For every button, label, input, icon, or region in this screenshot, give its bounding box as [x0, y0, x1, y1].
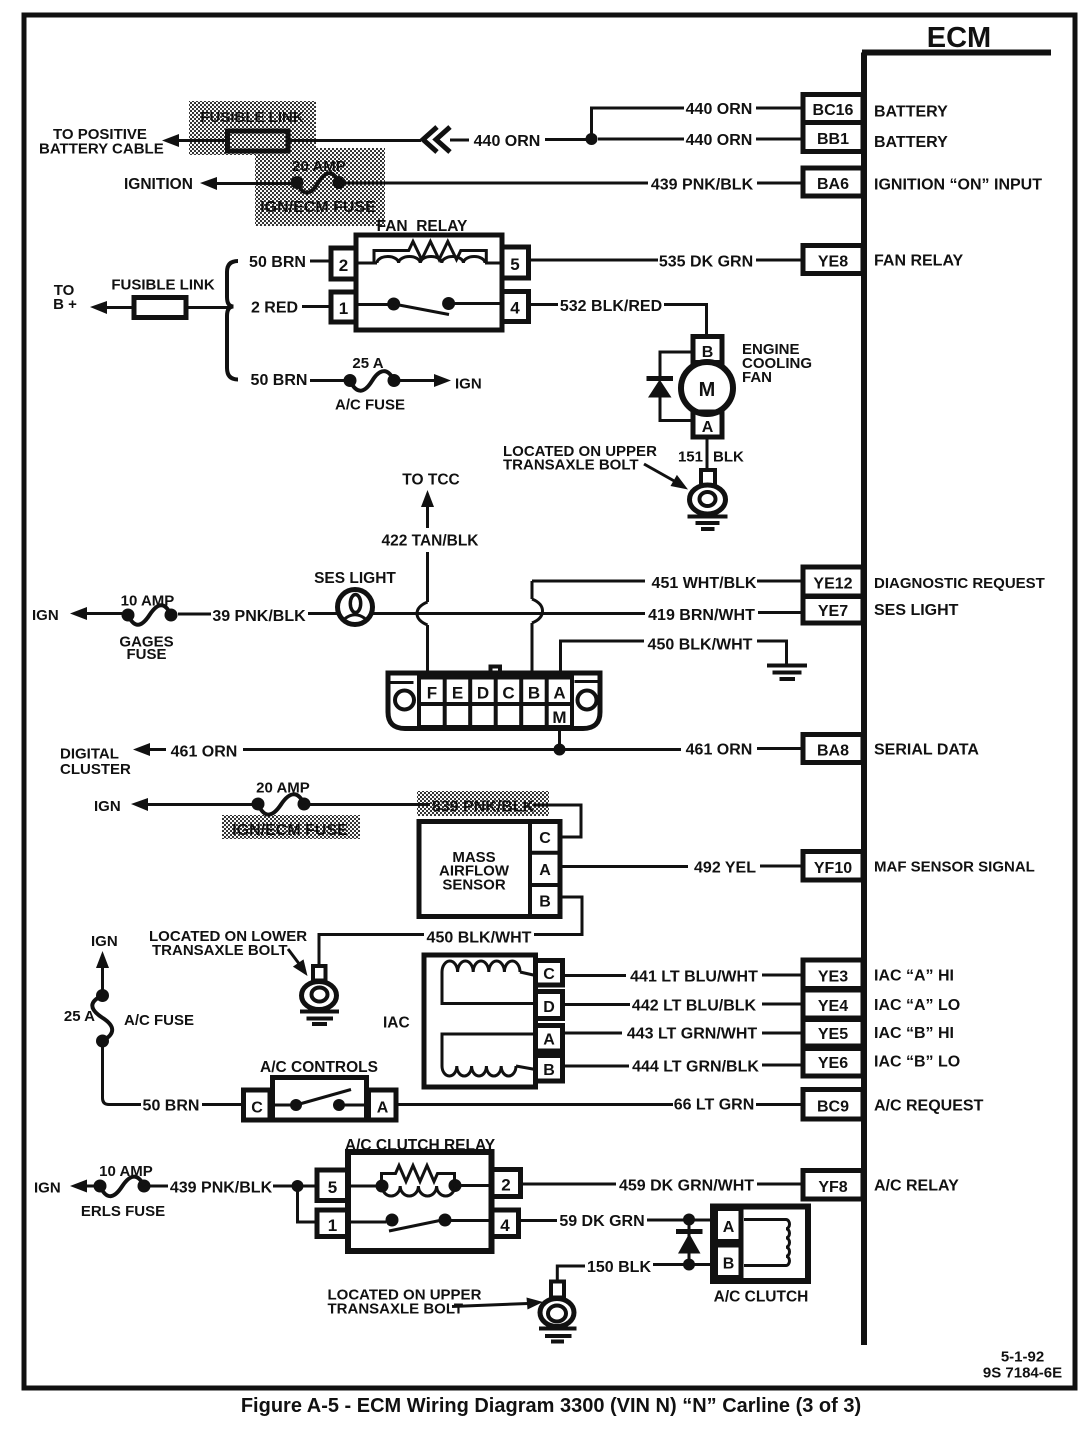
IGN/ECM fuse highlight patch — [255, 148, 385, 226]
wire 50 BRN from A/C fuse to A/C controls — [103, 1041, 142, 1105]
svg-text:IGN: IGN — [91, 933, 118, 950]
connector pin YF10 — [803, 852, 863, 881]
diode D1 fan motor — [647, 379, 674, 398]
svg-text:IGN/ECM FUSE: IGN/ECM FUSE — [260, 199, 376, 216]
arrow to G3 — [452, 1298, 543, 1310]
svg-text:50 BRN: 50 BRN — [143, 1098, 200, 1115]
relay K1 fan relay body — [356, 235, 502, 330]
svg-text:IGN/ECM FUSE: IGN/ECM FUSE — [232, 822, 348, 839]
svg-text:A/C FUSE: A/C FUSE — [335, 397, 405, 414]
pin 1 fan relay — [331, 292, 356, 322]
connector pin YE6 — [803, 1049, 863, 1077]
wire 440 ORN chevron to label — [450, 139, 469, 142]
pin 5 A/C clutch relay — [317, 1170, 348, 1201]
svg-text:IAC: IAC — [383, 1015, 410, 1032]
svg-text:20 AMP: 20 AMP — [256, 780, 310, 797]
svg-text:419 BRN/WHT: 419 BRN/WHT — [648, 607, 755, 624]
svg-text:C: C — [502, 684, 514, 703]
label LOCATED ON LOWER TRANSAXLE BOLT — [149, 928, 307, 959]
svg-text:66 LT GRN: 66 LT GRN — [674, 1097, 755, 1114]
svg-text:441 LT BLU/WHT: 441 LT BLU/WHT — [630, 969, 758, 986]
svg-text:A: A — [702, 419, 714, 436]
connector pin BA8 — [803, 735, 863, 763]
svg-text:TRANSAXLE BOLT: TRANSAXLE BOLT — [328, 1301, 464, 1318]
svg-text:FAN RELAY: FAN RELAY — [874, 253, 964, 270]
svg-text:4: 4 — [500, 1216, 510, 1235]
IAC motor body — [424, 955, 536, 1087]
svg-text:A: A — [539, 862, 551, 879]
wire 532 BLK/RED to fan motor B — [664, 305, 707, 338]
svg-text:9S 7184-6E: 9S 7184-6E — [983, 1365, 1062, 1382]
MAF pin letters C A B — [539, 830, 551, 911]
wire 150 BLK from pin B — [653, 1263, 716, 1266]
svg-text:50 BRN: 50 BRN — [249, 254, 306, 271]
svg-text:D: D — [477, 684, 489, 703]
svg-text:A/C FUSE: A/C FUSE — [124, 1012, 194, 1029]
wire 439 PNK/BLK fuse to label — [345, 182, 648, 185]
svg-text:SENSOR: SENSOR — [442, 877, 506, 894]
wire 492 YEL from MAF pin A — [560, 865, 688, 868]
brace bus joining 50 BRN feeds — [227, 261, 238, 380]
connector pin YE4 — [803, 990, 863, 1018]
wire 459 to pin YF8 — [757, 1183, 803, 1186]
svg-text:F: F — [427, 684, 437, 703]
svg-text:IAC “A” HI: IAC “A” HI — [874, 968, 954, 985]
wire 492 YEL to pin YF10 — [760, 865, 803, 868]
svg-text:IGN: IGN — [32, 607, 59, 624]
svg-text:4: 4 — [510, 299, 520, 318]
connector pin YE5 — [803, 1020, 863, 1047]
svg-text:439 PNK/BLK: 439 PNK/BLK — [170, 1180, 273, 1197]
svg-text:YE5: YE5 — [818, 1026, 848, 1043]
svg-text:YE8: YE8 — [818, 254, 848, 271]
DLC pin letters F E D C B A M — [427, 684, 567, 728]
fan relay coil winding — [356, 257, 502, 264]
arrow to B+ — [90, 301, 134, 314]
fuse A/C 25A (vertical) — [92, 989, 112, 1048]
svg-text:BA6: BA6 — [817, 176, 849, 193]
motor pin A engine cooling fan — [693, 412, 722, 437]
svg-text:25 A: 25 A — [64, 1008, 95, 1025]
svg-text:M: M — [552, 708, 566, 727]
svg-text:461 ORN: 461 ORN — [686, 742, 753, 759]
svg-text:YF8: YF8 — [818, 1179, 847, 1196]
svg-text:BB1: BB1 — [817, 131, 849, 148]
ground bolt G3 (upper transaxle) — [539, 1282, 577, 1342]
switch S1 A/C controls body — [273, 1078, 367, 1121]
svg-text:FAN: FAN — [742, 369, 772, 386]
svg-text:451 WHT/BLK: 451 WHT/BLK — [652, 575, 757, 592]
motor M1 engine cooling fan — [681, 362, 733, 414]
connector pin YE8 — [803, 246, 863, 274]
svg-text:IAC “A” LO: IAC “A” LO — [874, 997, 960, 1014]
svg-text:MAF SENSOR SIGNAL: MAF SENSOR SIGNAL — [874, 859, 1035, 876]
svg-text:BA8: BA8 — [817, 743, 849, 760]
wire 66 LT GRN — [396, 1103, 673, 1106]
svg-text:YE7: YE7 — [818, 603, 848, 620]
svg-text:532 BLK/RED: 532 BLK/RED — [560, 298, 662, 315]
fusible link F1 highlight patch — [189, 101, 316, 155]
fan relay suppression resistor — [374, 242, 486, 264]
svg-text:5-1-92: 5-1-92 — [1001, 1349, 1044, 1366]
A/C clutch relay coil winding — [348, 1179, 492, 1196]
svg-text:FUSIBLE LINK: FUSIBLE LINK — [200, 109, 303, 126]
svg-text:SES LIGHT: SES LIGHT — [874, 602, 959, 619]
wire 419 BRN/WHT to pin YE7 — [758, 611, 803, 614]
node battery feed junction — [586, 133, 598, 145]
svg-text:450 BLK/WHT: 450 BLK/WHT — [648, 637, 753, 654]
svg-text:440 ORN: 440 ORN — [474, 133, 541, 150]
wire 442 to pin YE4 — [762, 1003, 803, 1006]
svg-text:YE3: YE3 — [818, 969, 848, 986]
svg-text:A/C CONTROLS: A/C CONTROLS — [260, 1059, 378, 1076]
svg-text:TO TCC: TO TCC — [402, 472, 459, 489]
wire 50 BRN to A/C fuse — [310, 379, 345, 382]
A/C controls pin C — [244, 1090, 271, 1120]
svg-text:TRANSAXLE BOLT: TRANSAXLE BOLT — [503, 457, 639, 474]
svg-text:Figure A-5 - ECM Wiring Diagra: Figure A-5 - ECM Wiring Diagram 3300 (VI… — [241, 1395, 861, 1417]
wire 443 LT GRN/WHT — [563, 1032, 623, 1035]
label TO POSITIVE BATTERY CABLE — [39, 126, 164, 158]
svg-text:10 AMP: 10 AMP — [99, 1163, 153, 1180]
A/C controls pin A — [369, 1090, 397, 1120]
svg-text:A: A — [543, 1032, 555, 1049]
svg-text:E: E — [452, 684, 463, 703]
IGN/ECM fuse highlight patch (lower) — [222, 815, 360, 839]
wire 451 WHT/BLK to pin YE12 — [757, 580, 803, 583]
pin 2 A/C clutch relay — [492, 1170, 521, 1197]
svg-text:BATTERY: BATTERY — [874, 104, 948, 121]
svg-text:C: C — [543, 966, 555, 983]
svg-text:39 PNK/BLK: 39 PNK/BLK — [212, 608, 306, 625]
A/C clutch relay suppression resistor — [382, 1166, 455, 1187]
IAC pin B — [536, 1056, 563, 1082]
arrow to IGN — [131, 798, 252, 811]
wire 461 ORN serial data bus — [243, 748, 681, 751]
connector pin BC9 — [803, 1090, 863, 1120]
arrow to IGN ERLS — [70, 1180, 95, 1193]
svg-text:YE12: YE12 — [813, 576, 852, 593]
svg-text:535 DK GRN: 535 DK GRN — [659, 254, 753, 271]
wire 441 LT BLU/WHT — [563, 974, 627, 977]
arrow to G1 — [644, 464, 688, 490]
svg-text:459 DK GRN/WHT: 459 DK GRN/WHT — [619, 1178, 754, 1195]
wire ERLS fuse to 439 PNK/BLK — [150, 1185, 168, 1188]
node serial data junction — [554, 744, 566, 756]
wire 459 DK GRN/WHT from pin 2 — [521, 1183, 617, 1186]
connector pin BC16 — [803, 95, 863, 123]
wire 2 RED to pin 1 — [302, 305, 331, 308]
wire 444 LT GRN/BLK — [563, 1065, 630, 1068]
svg-text:IGNITION “ON” INPUT: IGNITION “ON” INPUT — [874, 177, 1042, 194]
pin 4 A/C clutch relay — [492, 1210, 519, 1237]
wire 443 to pin YE5 — [762, 1032, 803, 1035]
svg-text:YE6: YE6 — [818, 1055, 848, 1072]
svg-text:B: B — [543, 1062, 555, 1079]
wire 461 ORN to pin BA8 — [757, 747, 803, 750]
svg-text:422 TAN/BLK: 422 TAN/BLK — [381, 533, 479, 550]
svg-text:BATTERY CABLE: BATTERY CABLE — [39, 141, 164, 158]
svg-text:839 PNK/BLK: 839 PNK/BLK — [432, 799, 535, 816]
wire 532 BLK/RED from pin 4 — [529, 303, 559, 306]
wire 440 ORN to pin BC16 — [756, 107, 803, 110]
svg-text:IGN: IGN — [94, 798, 121, 815]
label GAGES FUSE — [119, 634, 173, 664]
wire 150 BLK to ground bolt G3 — [557, 1266, 585, 1281]
svg-text:20 AMP: 20 AMP — [292, 158, 346, 175]
svg-text:25 A: 25 A — [352, 355, 383, 372]
connector pin BA6 — [803, 168, 863, 196]
wire 419 BRN/WHT from SES light — [373, 612, 646, 615]
svg-text:B +: B + — [53, 296, 77, 313]
arrow A/C fuse to IGN — [400, 374, 451, 387]
svg-text:FUSIBLE LINK: FUSIBLE LINK — [111, 277, 214, 294]
svg-text:450 BLK/WHT: 450 BLK/WHT — [427, 930, 532, 947]
wire 50 BRN to pin C — [202, 1103, 244, 1106]
svg-text:ERLS FUSE: ERLS FUSE — [81, 1203, 165, 1220]
fuse IGN/ECM 20 AMP — [291, 173, 346, 193]
svg-text:IGNITION: IGNITION — [124, 176, 193, 193]
svg-text:M: M — [699, 379, 716, 401]
connector pin YE7 — [803, 597, 863, 624]
svg-text:50 BRN: 50 BRN — [251, 372, 308, 389]
wire 839 PNK/BLK — [310, 803, 430, 806]
svg-text:442 LT BLU/BLK: 442 LT BLU/BLK — [632, 998, 757, 1015]
svg-text:BC16: BC16 — [813, 102, 854, 119]
pin 2 fan relay — [331, 248, 356, 279]
connector pin BB1 — [803, 123, 863, 152]
label ENGINE COOLING FAN — [742, 341, 812, 386]
wire B+ feed to brace junction — [186, 306, 231, 309]
IAC pin C — [536, 961, 563, 986]
label TO B+ — [53, 282, 77, 313]
fuse ERLS 10 AMP — [94, 1177, 151, 1197]
svg-text:CLUSTER: CLUSTER — [60, 761, 131, 778]
svg-text:B: B — [539, 894, 551, 911]
arrow to positive battery cable — [162, 134, 228, 147]
chevron crossover on 440 ORN — [423, 127, 450, 152]
svg-text:IGN: IGN — [34, 1180, 61, 1197]
chassis ground (450 BLK/WHT) — [767, 666, 807, 680]
svg-text:492 YEL: 492 YEL — [694, 860, 756, 877]
svg-text:IGN: IGN — [455, 376, 482, 393]
svg-text:BATTERY: BATTERY — [874, 134, 948, 151]
pin 1 A/C clutch relay — [317, 1210, 348, 1237]
svg-text:FUSE: FUSE — [126, 646, 166, 663]
svg-text:SERIAL DATA: SERIAL DATA — [874, 742, 979, 759]
ECM module boundary — [862, 53, 1051, 1346]
svg-text:B: B — [702, 344, 714, 361]
svg-text:A/C CLUTCH: A/C CLUTCH — [714, 1289, 809, 1306]
fusible link F1 — [228, 131, 289, 151]
DLC pin grid — [419, 678, 572, 728]
wire 440 ORN junction to BB1 — [598, 138, 684, 141]
label DIGITAL CLUSTER — [60, 746, 131, 779]
svg-text:A/C REQUEST: A/C REQUEST — [874, 1098, 984, 1115]
wire 439 PNK/BLK to pin BA6 — [757, 182, 803, 185]
fuse IGN/ECM 20 AMP (lower) — [252, 794, 311, 814]
motor pin B engine cooling fan — [693, 337, 722, 363]
A/C clutch relay switch contacts — [348, 1214, 492, 1232]
wire 839 PNK/BLK to MAF pin C — [533, 805, 581, 837]
svg-text:440 ORN: 440 ORN — [686, 132, 753, 149]
svg-text:B: B — [723, 1256, 735, 1273]
svg-text:2 RED: 2 RED — [251, 300, 298, 317]
node diode anode junction — [683, 1214, 695, 1226]
relay K2 A/C clutch relay body — [348, 1152, 492, 1251]
sensor U2 mass airflow sensor body — [419, 822, 560, 917]
svg-text:A: A — [377, 1100, 389, 1117]
svg-text:440 ORN: 440 ORN — [686, 101, 753, 118]
wire 151 BLK — [706, 437, 709, 470]
wire diode branch — [660, 352, 693, 421]
pin 4 fan relay — [502, 292, 529, 322]
svg-text:59 DK GRN: 59 DK GRN — [559, 1213, 644, 1230]
node diode cathode junction — [683, 1259, 695, 1271]
svg-text:A: A — [553, 684, 565, 703]
ground bolt G1 (engine cooling fan) — [688, 470, 728, 529]
wire 440 ORN label to junction — [545, 138, 592, 141]
svg-text:TRANSAXLE BOLT: TRANSAXLE BOLT — [152, 942, 288, 959]
svg-text:461 ORN: 461 ORN — [171, 744, 238, 761]
wire 66 LT GRN to pin BC9 — [756, 1103, 803, 1106]
svg-text:2: 2 — [501, 1176, 510, 1195]
wire 535 DK GRN from pin 5 — [529, 259, 659, 262]
wire 422 TAN/BLK with hop over 419 — [417, 552, 428, 677]
IAC winding B (A-B) — [442, 1034, 536, 1076]
DLC bolt holes — [395, 691, 597, 710]
svg-text:1: 1 — [339, 299, 348, 318]
wire 440 ORN to pin BB1 — [756, 138, 803, 141]
svg-text:A: A — [723, 1219, 735, 1236]
arrow to ignition — [200, 177, 294, 190]
lamp SES light — [338, 590, 373, 625]
svg-text:443 LT GRN/WHT: 443 LT GRN/WHT — [627, 1026, 758, 1043]
arrow 422 TAN/BLK to TCC — [421, 490, 434, 528]
svg-text:FAN RELAY: FAN RELAY — [377, 218, 468, 235]
A/C controls switch contacts — [273, 1090, 369, 1112]
fan relay switch contacts — [356, 297, 502, 315]
wire gages fuse to 39 PNK/BLK — [178, 613, 211, 616]
label 151 BLK — [678, 449, 744, 466]
wire 439 branch to pin 1 — [298, 1186, 318, 1222]
svg-text:2: 2 — [339, 256, 348, 275]
label MASS AIRFLOW SENSOR — [439, 849, 510, 894]
fuse A/C 25A (top) — [344, 371, 401, 391]
wire 444 to pin YE6 — [762, 1064, 803, 1067]
svg-text:YE4: YE4 — [818, 998, 848, 1015]
IAC winding A (C-D) — [442, 961, 536, 1004]
wire 535 DK GRN to pin YE8 — [756, 259, 803, 262]
clutch coil L1 A/C clutch body — [713, 1207, 808, 1282]
svg-text:5: 5 — [510, 255, 519, 274]
wire 450 BLK/WHT from MAF pin B — [534, 897, 582, 935]
svg-text:DIAGNOSTIC REQUEST: DIAGNOSTIC REQUEST — [874, 575, 1045, 592]
svg-text:BC9: BC9 — [817, 1099, 849, 1116]
connector pin YE12 — [803, 567, 863, 596]
svg-text:A/C RELAY: A/C RELAY — [874, 1178, 959, 1195]
svg-text:439 PNK/BLK: 439 PNK/BLK — [651, 177, 754, 194]
wire 39 PNK/BLK to SES light — [308, 612, 338, 615]
svg-text:IAC “B” LO: IAC “B” LO — [874, 1054, 960, 1071]
arrow to IGN gages — [70, 607, 122, 620]
diode D2 A/C clutch — [676, 1220, 703, 1265]
label LOCATED ON UPPER TRANSAXLE BOLT (G3) — [328, 1287, 482, 1318]
wire 442 LT BLU/BLK — [563, 1003, 631, 1006]
wire junction up to BC16 branch — [592, 108, 685, 139]
svg-text:DIGITAL: DIGITAL — [60, 746, 119, 763]
wire 450 BLK/WHT to chassis ground — [757, 641, 787, 664]
wire 439 PNK/BLK to pin 5 — [273, 1185, 317, 1188]
wire 441 to pin YE3 — [762, 974, 803, 977]
IAC pin A — [536, 1026, 563, 1052]
svg-text:ECM: ECM — [927, 22, 991, 54]
connector J1 data link connector shell — [388, 667, 600, 729]
connector pin YE3 — [803, 960, 863, 989]
svg-text:444 LT GRN/BLK: 444 LT GRN/BLK — [632, 1059, 759, 1076]
svg-text:C: C — [539, 830, 551, 847]
839 PNK/BLK highlight patch — [417, 791, 549, 816]
svg-text:151: 151 — [678, 449, 703, 466]
wire 450 BLK/WHT to ground bolt G2 — [319, 935, 424, 966]
label LOCATED ON UPPER TRANSAXLE BOLT (G1) — [503, 443, 657, 474]
arrow to digital cluster — [133, 743, 166, 756]
node 439 junction — [292, 1180, 304, 1192]
wire 50 BRN to pin 2 — [310, 260, 331, 263]
svg-text:D: D — [543, 999, 555, 1016]
fuse GAGES 10 AMP — [122, 605, 178, 625]
A/C clutch coil winding — [744, 1220, 790, 1266]
svg-text:B: B — [528, 684, 540, 703]
wire 59 DK GRN to A/C clutch pin A — [647, 1219, 716, 1222]
connector pin YF8 — [803, 1171, 863, 1200]
svg-text:1: 1 — [328, 1216, 337, 1235]
svg-text:C: C — [251, 1100, 263, 1117]
ground bolt G2 (lower transaxle) — [300, 966, 339, 1024]
arrow to G2 — [288, 949, 308, 976]
wire 440 ORN from fusible link to chevron — [288, 139, 421, 142]
svg-text:YF10: YF10 — [814, 860, 852, 877]
IAC pin D — [536, 992, 563, 1019]
svg-text:5: 5 — [328, 1178, 337, 1197]
wire DLC pin M to serial data — [558, 729, 561, 750]
wire 451 WHT/BLK with hop over 419 — [532, 581, 645, 677]
svg-text:BLK: BLK — [713, 449, 744, 466]
arrow up to IGN — [96, 951, 109, 990]
svg-text:IAC “B” HI: IAC “B” HI — [874, 1025, 954, 1042]
fusible link F2 — [134, 298, 186, 318]
svg-text:150 BLK: 150 BLK — [587, 1259, 651, 1276]
wire 450 BLK/WHT from DLC pin A — [561, 641, 645, 677]
wire 59 DK GRN from pin 4 — [519, 1219, 558, 1222]
svg-text:SES LIGHT: SES LIGHT — [314, 570, 396, 587]
pin 5 fan relay — [502, 247, 529, 278]
